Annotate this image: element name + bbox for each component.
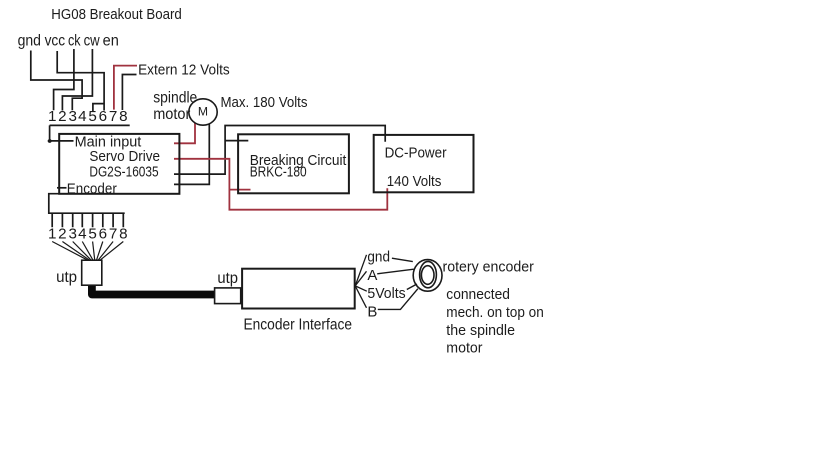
- svg-text:2: 2: [58, 108, 66, 125]
- svg-text:Encoder Interface: Encoder Interface: [244, 317, 353, 334]
- svg-text:gnd: gnd: [367, 249, 390, 266]
- svg-text:motor: motor: [153, 106, 190, 123]
- svg-text:3: 3: [68, 108, 76, 125]
- svg-text:ck: ck: [68, 32, 81, 49]
- svg-text:rotery encoder: rotery encoder: [443, 258, 534, 275]
- svg-text:4: 4: [78, 225, 86, 242]
- svg-text:gnd: gnd: [18, 32, 41, 49]
- svg-text:Encoder: Encoder: [67, 180, 117, 197]
- svg-text:8: 8: [119, 108, 127, 125]
- svg-text:DG2S-16035: DG2S-16035: [89, 163, 158, 180]
- svg-text:6: 6: [99, 225, 107, 242]
- svg-text:cw: cw: [84, 32, 101, 49]
- svg-text:connected: connected: [446, 286, 510, 303]
- svg-text:Max. 180 Volts: Max. 180 Volts: [221, 94, 308, 111]
- svg-text:B: B: [367, 303, 377, 320]
- svg-text:en: en: [103, 32, 119, 49]
- svg-text:utp: utp: [217, 270, 238, 287]
- svg-text:140 Volts: 140 Volts: [387, 173, 442, 190]
- svg-text:7: 7: [109, 225, 117, 242]
- svg-text:spindle: spindle: [153, 90, 197, 107]
- svg-text:3: 3: [68, 225, 76, 242]
- svg-text:8: 8: [119, 225, 127, 242]
- svg-text:the spindle: the spindle: [446, 322, 515, 339]
- svg-text:2: 2: [58, 225, 66, 242]
- svg-text:vcc: vcc: [45, 32, 66, 49]
- svg-text:4: 4: [78, 108, 86, 125]
- svg-text:mech. on top on: mech. on top on: [446, 304, 544, 321]
- svg-text:5: 5: [88, 108, 96, 125]
- svg-text:7: 7: [109, 108, 117, 125]
- svg-text:1: 1: [48, 108, 56, 125]
- svg-text:5Volts: 5Volts: [367, 285, 405, 302]
- svg-text:motor: motor: [446, 340, 482, 357]
- svg-text:BRKC-180: BRKC-180: [250, 163, 307, 180]
- svg-text:1: 1: [48, 225, 56, 242]
- svg-text:utp: utp: [56, 269, 77, 286]
- svg-text:6: 6: [99, 108, 107, 125]
- svg-text:Extern 12 Volts: Extern 12 Volts: [138, 62, 230, 79]
- svg-text:M: M: [198, 104, 208, 118]
- svg-text:5: 5: [88, 225, 96, 242]
- svg-text:A: A: [367, 267, 377, 284]
- svg-text:HG08 Breakout Board: HG08 Breakout Board: [51, 6, 182, 23]
- svg-text:DC-Power: DC-Power: [385, 144, 447, 161]
